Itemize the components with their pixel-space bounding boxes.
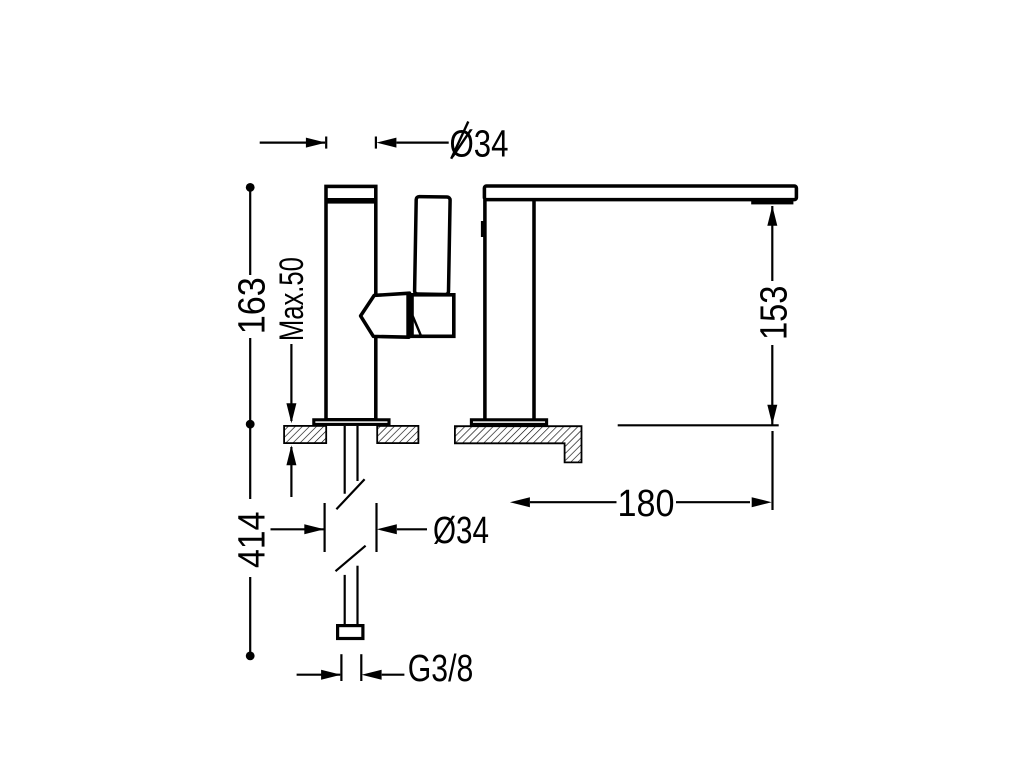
svg-text:414: 414 bbox=[231, 512, 273, 569]
svg-text:Max.50: Max.50 bbox=[273, 257, 311, 341]
svg-text:163: 163 bbox=[231, 277, 273, 334]
svg-text:153: 153 bbox=[753, 286, 795, 341]
svg-text:G3/8: G3/8 bbox=[408, 648, 474, 690]
svg-text:Ø34: Ø34 bbox=[433, 510, 489, 552]
svg-text:180: 180 bbox=[618, 483, 675, 525]
